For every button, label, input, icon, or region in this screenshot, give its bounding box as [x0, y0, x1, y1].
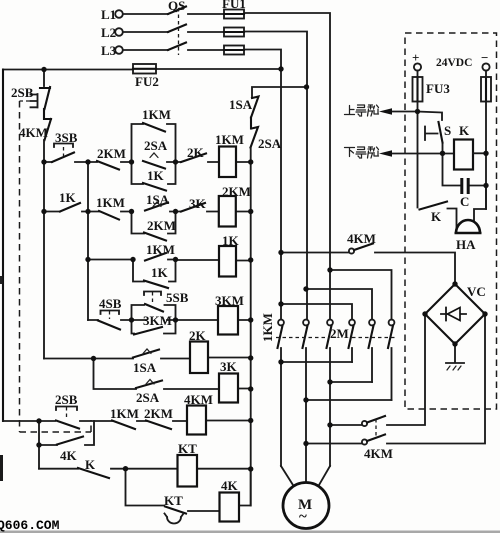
svg-text:5SB: 5SB	[166, 290, 189, 305]
svg-text:2KM: 2KM	[222, 184, 251, 199]
svg-text:K: K	[431, 209, 442, 224]
svg-text:2SA: 2SA	[144, 138, 168, 153]
svg-text:K: K	[85, 457, 96, 472]
svg-text:2KM: 2KM	[147, 218, 176, 233]
svg-text:2M: 2M	[330, 326, 349, 341]
svg-text:3KM: 3KM	[215, 293, 244, 308]
svg-text:2SB: 2SB	[55, 392, 78, 407]
svg-text:1SA: 1SA	[146, 192, 170, 207]
svg-text:~: ~	[299, 509, 307, 525]
svg-text:QS: QS	[168, 0, 185, 13]
svg-text:4KM: 4KM	[347, 231, 376, 246]
svg-text:1SA: 1SA	[133, 360, 157, 375]
svg-text:L3: L3	[101, 43, 117, 58]
svg-text:4K: 4K	[221, 478, 239, 493]
svg-text:VC: VC	[467, 284, 486, 299]
svg-text:Q606.COM: Q606.COM	[0, 518, 60, 533]
svg-text:4K: 4K	[60, 448, 78, 463]
svg-text:3KM: 3KM	[143, 313, 172, 328]
svg-text:FU2: FU2	[135, 74, 159, 89]
svg-text:24VDC: 24VDC	[436, 57, 472, 69]
svg-text:1K: 1K	[151, 265, 169, 280]
svg-text:FU1: FU1	[222, 0, 246, 11]
svg-text:−: −	[481, 50, 488, 65]
svg-text:1KM: 1KM	[215, 132, 244, 147]
svg-text:KT: KT	[164, 493, 183, 508]
svg-text:1KM: 1KM	[96, 195, 125, 210]
svg-text:2KM: 2KM	[97, 146, 126, 161]
svg-text:KT: KT	[178, 441, 197, 456]
svg-text:HA: HA	[456, 237, 476, 252]
svg-text:2SA: 2SA	[136, 390, 160, 405]
svg-text:1KM: 1KM	[110, 406, 139, 421]
svg-text:FU3: FU3	[426, 81, 450, 96]
svg-text:2KM: 2KM	[144, 406, 173, 421]
svg-text:4KM: 4KM	[184, 392, 213, 407]
svg-text:1K: 1K	[147, 168, 165, 183]
svg-text:C: C	[460, 194, 469, 209]
svg-text:3K: 3K	[220, 359, 238, 374]
svg-text:3SB: 3SB	[55, 130, 78, 145]
svg-text:1SA: 1SA	[229, 97, 253, 112]
svg-text:L1: L1	[101, 7, 116, 22]
svg-text:4SB: 4SB	[99, 296, 122, 311]
svg-text:2SB: 2SB	[11, 85, 34, 100]
svg-text:K: K	[459, 123, 470, 138]
svg-text:1KM: 1KM	[146, 242, 175, 257]
svg-text:4KM: 4KM	[19, 125, 48, 140]
svg-text:S: S	[444, 123, 451, 138]
svg-text:3K: 3K	[189, 196, 207, 211]
svg-text:+: +	[412, 50, 419, 65]
svg-text:L2: L2	[101, 25, 116, 40]
svg-text:2K: 2K	[187, 145, 205, 160]
svg-text:1K: 1K	[222, 233, 240, 248]
svg-text:4KM: 4KM	[364, 446, 393, 461]
svg-text:1K: 1K	[59, 190, 77, 205]
svg-text:2SA: 2SA	[258, 136, 282, 151]
svg-text:1KM: 1KM	[260, 313, 275, 342]
svg-text:1KM: 1KM	[142, 107, 171, 122]
svg-text:2K: 2K	[189, 328, 207, 343]
